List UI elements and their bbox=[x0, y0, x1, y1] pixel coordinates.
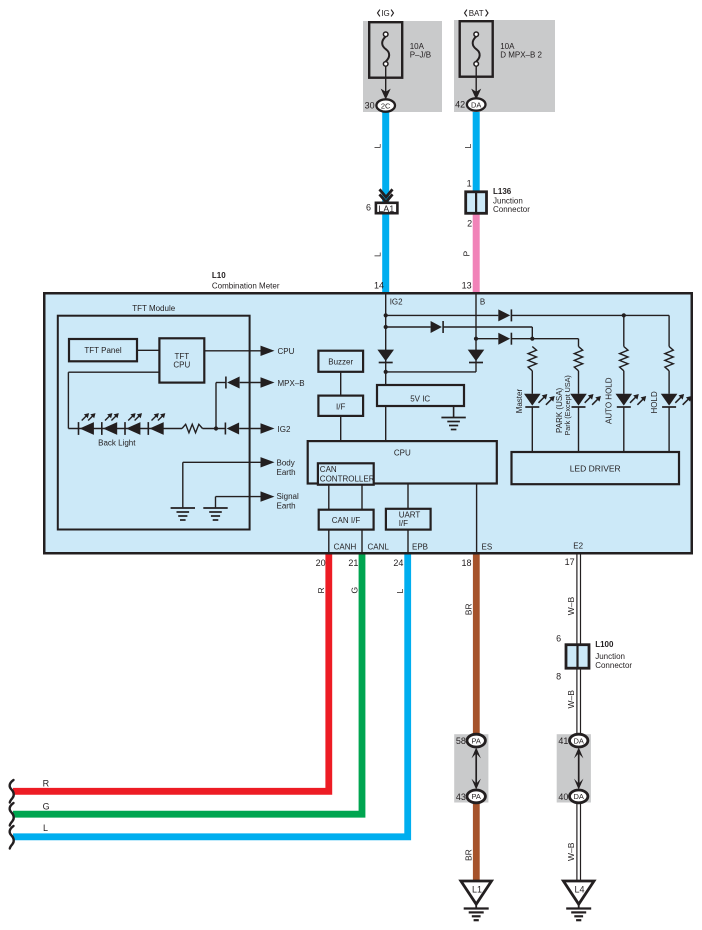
svg-text:BAT: BAT bbox=[469, 9, 484, 18]
svg-text:Connector: Connector bbox=[595, 661, 632, 670]
svg-text:CAN I/F: CAN I/F bbox=[332, 516, 361, 525]
svg-text:W–B: W–B bbox=[566, 842, 576, 861]
svg-text:L: L bbox=[395, 589, 405, 594]
svg-text:EPB: EPB bbox=[412, 543, 428, 552]
svg-text:P–J/B: P–J/B bbox=[410, 51, 431, 60]
svg-text:Back Light: Back Light bbox=[98, 439, 136, 448]
svg-text:L: L bbox=[372, 144, 382, 149]
svg-text:17: 17 bbox=[565, 557, 575, 567]
svg-text:CANH: CANH bbox=[334, 543, 357, 552]
svg-text:14: 14 bbox=[374, 281, 384, 291]
svg-text:Buzzer: Buzzer bbox=[328, 357, 353, 366]
svg-text:IG2: IG2 bbox=[390, 298, 403, 307]
svg-text:LED DRIVER: LED DRIVER bbox=[570, 463, 621, 473]
svg-text:13: 13 bbox=[462, 281, 472, 291]
svg-text:Earth: Earth bbox=[277, 468, 296, 477]
svg-text:BR: BR bbox=[463, 603, 473, 615]
svg-text:24: 24 bbox=[393, 558, 403, 568]
svg-text:6: 6 bbox=[366, 202, 371, 212]
svg-text:Body: Body bbox=[277, 458, 295, 467]
svg-text:Combination Meter: Combination Meter bbox=[212, 282, 280, 291]
svg-text:Park (Except USA): Park (Except USA) bbox=[563, 375, 572, 435]
svg-text:L4: L4 bbox=[574, 885, 584, 895]
svg-text:L10: L10 bbox=[212, 271, 226, 280]
svg-text:CPU: CPU bbox=[278, 347, 295, 356]
svg-text:41: 41 bbox=[558, 736, 568, 746]
svg-text:1: 1 bbox=[467, 179, 472, 189]
svg-text:L100: L100 bbox=[595, 640, 614, 649]
svg-text:L: L bbox=[43, 823, 48, 833]
svg-text:IG: IG bbox=[381, 9, 389, 18]
svg-text:B: B bbox=[480, 298, 485, 307]
svg-text:21: 21 bbox=[348, 558, 358, 568]
svg-text:DA: DA bbox=[471, 100, 481, 109]
svg-text:Junction: Junction bbox=[595, 652, 625, 661]
svg-text:I/F: I/F bbox=[399, 519, 408, 528]
svg-text:TFT Module: TFT Module bbox=[132, 304, 176, 313]
svg-text:P: P bbox=[462, 251, 472, 257]
svg-text:BR: BR bbox=[463, 849, 473, 861]
svg-text:L1: L1 bbox=[472, 885, 482, 895]
svg-text:42: 42 bbox=[455, 100, 465, 110]
svg-text:G: G bbox=[349, 587, 359, 594]
svg-text:AUTO HOLD: AUTO HOLD bbox=[604, 377, 613, 424]
svg-text:MPX–B: MPX–B bbox=[278, 379, 305, 388]
svg-text:20: 20 bbox=[316, 558, 326, 568]
svg-text:CANL: CANL bbox=[368, 543, 390, 552]
svg-text:I/F: I/F bbox=[336, 402, 345, 411]
svg-text:ES: ES bbox=[482, 543, 493, 552]
svg-text:HOLD: HOLD bbox=[650, 391, 659, 413]
svg-text:W–B: W–B bbox=[566, 597, 576, 616]
svg-text:L136: L136 bbox=[493, 187, 512, 196]
svg-text:W–B: W–B bbox=[566, 690, 576, 709]
svg-text:40: 40 bbox=[558, 792, 568, 802]
svg-text:5V IC: 5V IC bbox=[410, 394, 430, 403]
svg-text:8: 8 bbox=[556, 672, 561, 682]
svg-text:CPU: CPU bbox=[173, 361, 190, 370]
svg-text:30: 30 bbox=[365, 101, 375, 111]
svg-text:DA: DA bbox=[573, 792, 583, 801]
svg-text:R: R bbox=[316, 587, 326, 593]
svg-text:L: L bbox=[463, 144, 473, 149]
svg-text:18: 18 bbox=[461, 558, 471, 568]
svg-text:58: 58 bbox=[456, 736, 466, 746]
svg-text:LA1: LA1 bbox=[378, 204, 394, 214]
svg-text:6: 6 bbox=[556, 634, 561, 644]
svg-text:TFT: TFT bbox=[174, 352, 189, 361]
svg-text:Signal: Signal bbox=[277, 492, 299, 501]
svg-text:Earth: Earth bbox=[277, 502, 296, 511]
svg-text:TFT Panel: TFT Panel bbox=[84, 346, 121, 355]
svg-text:DA: DA bbox=[573, 736, 583, 745]
svg-text:2: 2 bbox=[467, 219, 472, 229]
svg-text:PA: PA bbox=[471, 736, 480, 745]
svg-text:2C: 2C bbox=[381, 101, 391, 110]
svg-text:CPU: CPU bbox=[394, 448, 411, 457]
svg-text:R: R bbox=[43, 778, 50, 788]
svg-text:CONTROLLER: CONTROLLER bbox=[320, 475, 375, 484]
svg-text:L: L bbox=[372, 252, 382, 257]
svg-text:IG2: IG2 bbox=[278, 425, 291, 434]
svg-text:Connector: Connector bbox=[493, 205, 530, 214]
svg-text:PA: PA bbox=[471, 792, 480, 801]
svg-text:E2: E2 bbox=[573, 542, 583, 551]
svg-text:G: G bbox=[43, 802, 50, 812]
svg-text:D MPX–B 2: D MPX–B 2 bbox=[500, 51, 542, 60]
svg-text:CAN: CAN bbox=[320, 465, 337, 474]
svg-text:43: 43 bbox=[456, 792, 466, 802]
svg-text:Master: Master bbox=[515, 389, 524, 414]
